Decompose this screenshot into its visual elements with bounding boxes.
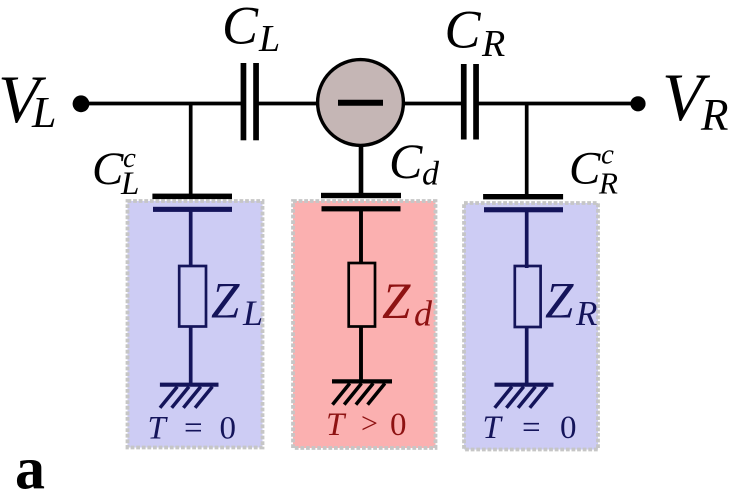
label VL (0, 61, 56, 137)
label CL (222, 0, 280, 60)
label CLc (92, 142, 139, 202)
svg-text:R: R (700, 90, 729, 140)
noise source U1 circle (318, 60, 404, 146)
wire main left (81, 102, 242, 106)
label VR (662, 59, 729, 140)
wire left bath upper (189, 211, 193, 267)
svg-text:L: L (258, 18, 280, 60)
svg-text:Z: Z (382, 274, 411, 330)
label T=0 left (148, 411, 237, 447)
wire right bath lower (525, 327, 529, 385)
label a panel letter (15, 436, 45, 501)
svg-text:C: C (569, 143, 601, 195)
svg-text:d: d (422, 156, 440, 193)
wire between source and CR (402, 102, 462, 106)
ground left (160, 385, 219, 408)
capacitor CRc plates (483, 194, 563, 212)
ground middle (332, 381, 392, 404)
wire mid bath lower (359, 327, 363, 382)
svg-text:Z: Z (211, 274, 240, 330)
svg-text:d: d (414, 294, 433, 334)
svg-text:L: L (31, 88, 56, 137)
svg-text:a: a (15, 436, 45, 501)
capacitor CR plates (461, 64, 479, 140)
node VR terminal dot (630, 96, 645, 111)
impedance Zd (349, 263, 375, 327)
impedance ZR (515, 266, 541, 327)
capacitor CL plates (241, 63, 259, 140)
svg-text:C: C (222, 0, 259, 56)
wire right branch down (525, 104, 529, 198)
wire left bath lower (189, 327, 193, 386)
svg-text:C: C (445, 0, 482, 60)
node VL terminal dot (73, 95, 90, 112)
svg-text:L: L (242, 293, 263, 333)
label T=0 right (483, 410, 577, 446)
label ZL (211, 274, 263, 334)
wire main right (477, 102, 638, 106)
capacitor CLc plates (152, 194, 232, 212)
wire right bath upper (525, 212, 529, 268)
label Cd (389, 133, 440, 193)
svg-text:R: R (481, 23, 505, 65)
wire source down (359, 145, 364, 196)
svg-text:R: R (598, 166, 618, 201)
svg-text:C: C (92, 143, 124, 195)
label ZR (545, 274, 597, 334)
impedance ZL (179, 266, 206, 327)
svg-text:T=0: T=0 (483, 410, 577, 446)
ground right (495, 385, 554, 408)
svg-text:T>0: T>0 (326, 407, 407, 443)
svg-text:C: C (389, 133, 423, 189)
svg-text:L: L (120, 166, 139, 202)
box right T=0 bath (464, 203, 598, 450)
capacitor Cd plates (321, 193, 401, 212)
label Zd (382, 274, 433, 334)
label T>0 middle (326, 407, 407, 443)
svg-text:Z: Z (545, 274, 574, 330)
wire left branch down (189, 104, 193, 197)
wire mid bath upper (359, 211, 363, 264)
svg-text:T=0: T=0 (148, 411, 237, 447)
svg-text:R: R (575, 294, 597, 333)
box middle T>0 bath (293, 201, 436, 448)
label CR (445, 0, 506, 65)
label CRc (569, 139, 618, 201)
box left T=0 bath (128, 201, 263, 448)
wire between CL and source (257, 102, 320, 106)
